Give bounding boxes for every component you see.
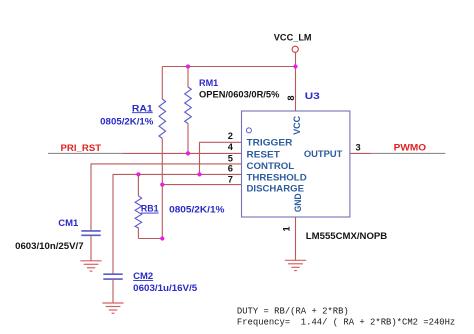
- pin name CONTROL: [247, 161, 295, 171]
- junction node: RB1 bottom corner at RA1 column: [160, 236, 164, 240]
- pin name THRESHOLD: [247, 173, 308, 183]
- svg-text:RM1: RM1: [199, 78, 218, 88]
- label CM2 (underlined): [133, 271, 153, 281]
- svg-text:8: 8: [286, 95, 296, 100]
- svg-text:RB1: RB1: [141, 204, 159, 214]
- designator mark circle inside U3: [246, 128, 251, 133]
- junction node: RM1 top on rail: [186, 64, 190, 68]
- svg-text:0805/2K/1%: 0805/2K/1%: [169, 204, 225, 214]
- wire: CM1 bottom to ground: [90, 235, 92, 260]
- label RA1 (underlined): [132, 103, 153, 113]
- svg-text:Frequency= 1.44/ ( RA + 2*RB): Frequency= 1.44/ ( RA + 2*RB)*CM2 =240Hz: [237, 317, 455, 327]
- svg-text:6: 6: [228, 164, 233, 174]
- svg-text:0603/1u/16V/5: 0603/1u/16V/5: [133, 283, 197, 293]
- value 0805/2K/1% for RA1: [100, 117, 154, 127]
- pin name VCC (rotated): [292, 115, 302, 134]
- svg-text:VCC: VCC: [292, 115, 302, 134]
- capacitor CM2: [103, 274, 122, 279]
- svg-text:CM2: CM2: [133, 271, 153, 281]
- pin name TRIGGER: [247, 138, 293, 148]
- pin name GND (rotated): [293, 193, 303, 212]
- svg-text:TRIGGER: TRIGGER: [247, 138, 293, 148]
- label U3: [305, 91, 320, 101]
- svg-text:5: 5: [228, 153, 233, 163]
- capacitor CM1: [81, 231, 100, 235]
- svg-text:3: 3: [356, 143, 361, 153]
- svg-text:THRESHOLD: THRESHOLD: [247, 173, 308, 183]
- svg-text:OPEN/0603/0R/5%: OPEN/0603/0R/5%: [199, 90, 280, 100]
- wire: VCC top rail from RA1 top to pin8 column: [162, 66, 295, 68]
- svg-text:0603/10n/25V/7: 0603/10n/25V/7: [15, 241, 84, 251]
- op-amp style IC body U3 (LM555 box): [242, 111, 350, 217]
- svg-text:RESET: RESET: [247, 149, 281, 159]
- net label PRI_RST: [61, 143, 102, 153]
- resistor RB1 (zigzag + leads): [135, 174, 142, 238]
- junction node: RM1 bottom on pin4 wire: [186, 151, 190, 155]
- pin number 5: [228, 153, 233, 163]
- pin number 7: [228, 175, 233, 185]
- wire: pin1 GND stub: [295, 217, 297, 260]
- svg-text:4: 4: [228, 142, 234, 152]
- resistor RM1 (zigzag + leads): [185, 67, 192, 154]
- svg-text:DISCHARGE: DISCHARGE: [247, 184, 305, 194]
- wire: pin5 CONTROL wire and drop to CM1: [91, 164, 242, 231]
- wire: pin3 OUTPUT stub: [350, 152, 371, 154]
- value 0603/1u/16V/5: [133, 283, 197, 293]
- svg-text:0805/2K/1%: 0805/2K/1%: [100, 117, 154, 127]
- pin number 6: [228, 164, 233, 174]
- value OPEN/0603/0R/5%: [199, 90, 280, 100]
- net label VCC_LM: [274, 32, 312, 42]
- svg-text:LM555CMX/NOPB: LM555CMX/NOPB: [306, 231, 388, 241]
- formula text Frequency: [237, 317, 455, 327]
- wire: pin6 THRESHOLD wire and drop to CM2: [113, 174, 242, 274]
- ground under pin 1: [285, 260, 306, 270]
- pin number 2: [228, 131, 233, 141]
- junction node: RA1 bottom on pin7 wire: [160, 183, 164, 187]
- svg-text:RA1: RA1: [132, 103, 153, 113]
- svg-text:GND: GND: [293, 193, 303, 212]
- svg-text:VCC_LM: VCC_LM: [274, 32, 312, 42]
- wire: PRI_RST off-page grey segment: [48, 152, 123, 154]
- pin number 4: [228, 142, 234, 152]
- wire: CM2 bottom to ground: [112, 279, 114, 303]
- value 0603/10n/25V/7: [15, 241, 84, 251]
- svg-text:7: 7: [228, 175, 233, 185]
- ground under CM1: [80, 261, 101, 271]
- junction node: VCC rail tap: [293, 64, 297, 68]
- pin name DISCHARGE: [247, 184, 305, 194]
- svg-text:2: 2: [228, 131, 233, 141]
- pin number 1 (rotated): [282, 226, 292, 231]
- net label PWMO: [394, 142, 426, 152]
- part number LM555CMX/NOPB: [306, 231, 388, 241]
- label CM1: [58, 218, 78, 228]
- svg-text:CM1: CM1: [58, 218, 78, 228]
- junction node: RB1 top on pin6 wire: [136, 172, 140, 176]
- svg-text:PRI_RST: PRI_RST: [61, 143, 102, 153]
- pin name OUTPUT: [304, 149, 343, 159]
- svg-text:U3: U3: [305, 91, 320, 101]
- wire: pin4 RESET wire to IC: [123, 152, 242, 154]
- svg-text:OUTPUT: OUTPUT: [304, 149, 343, 159]
- svg-text:1: 1: [282, 226, 292, 231]
- label RM1: [199, 78, 218, 88]
- svg-text:PWMO: PWMO: [394, 142, 426, 152]
- wire: pin7 DISCHARGE wire: [162, 184, 241, 186]
- svg-text:CONTROL: CONTROL: [247, 161, 295, 171]
- pin name RESET: [247, 149, 281, 159]
- svg-text:DUTY = RB/(RA + 2*RB): DUTY = RB/(RA + 2*RB): [237, 306, 349, 316]
- formula text DUTY: [237, 306, 349, 316]
- value 0805/2K/1% for RB1: [169, 204, 225, 214]
- wire: PWMO off-page grey segment: [371, 152, 445, 154]
- junction node: pin2 drop on pin6 wire: [197, 172, 201, 176]
- pin number 8 (rotated): [286, 95, 296, 100]
- ground under CM2: [102, 303, 123, 313]
- label RB1 (underlined): [141, 204, 159, 214]
- pin number 3: [356, 143, 361, 153]
- wire: RA1 column continuation pin7 to RB1 bottom: [161, 185, 163, 239]
- wire: RB1 bottom horizontal to RA1 column: [138, 238, 162, 240]
- resistor RA1 (zigzag + leads): [159, 67, 166, 185]
- wire: VCC vertical from circle to IC pin 8: [295, 52, 297, 111]
- power symbol VCC_LM open circle: [292, 46, 298, 52]
- wire: pin2 TRIGGER wire and drop to pin6 net: [200, 142, 242, 174]
